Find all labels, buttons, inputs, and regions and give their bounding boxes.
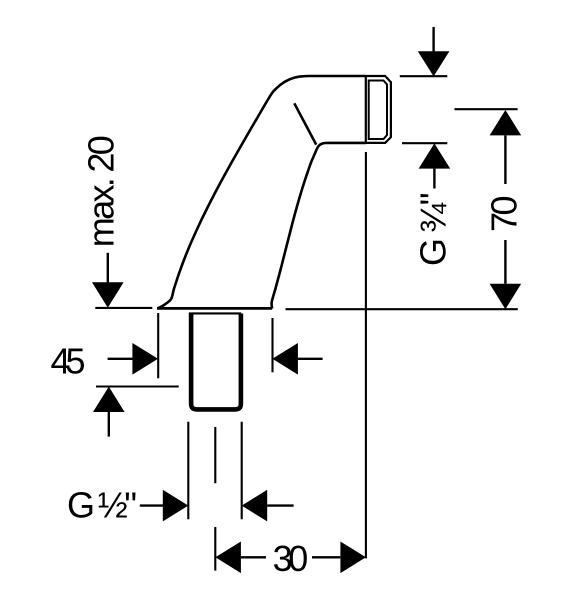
arrow right to base left edge bbox=[108, 358, 133, 360]
dim ref line fitting axis bbox=[455, 108, 518, 110]
arrow right to stub left bbox=[140, 504, 163, 506]
arrow down to fitting top bbox=[432, 27, 434, 51]
svg-text:45: 45 bbox=[51, 340, 86, 381]
arrow left to stub right bbox=[242, 490, 268, 522]
extension line stub left bbox=[187, 422, 189, 520]
stub G1/2 thick outline bbox=[191, 314, 241, 410]
svg-text:max. 20: max. 20 bbox=[80, 135, 121, 247]
centerline stub bbox=[214, 427, 216, 571]
extension line base left bbox=[157, 313, 159, 378]
dim ref line top of fitting bbox=[400, 75, 448, 77]
svg-text:30: 30 bbox=[273, 538, 309, 579]
svg-text:G ¾": G ¾" bbox=[413, 193, 454, 267]
svg-text:70: 70 bbox=[484, 196, 525, 233]
baseline right segment bbox=[286, 308, 518, 310]
extension line from fitting bottom corner bbox=[365, 152, 367, 558]
stub top line bbox=[189, 312, 241, 314]
dimension 70 vertical bbox=[490, 110, 522, 135]
baseline left segment bbox=[95, 307, 152, 309]
fitting G3/4 outer profile bbox=[366, 75, 391, 144]
extension line stub right bbox=[241, 422, 243, 520]
body outline (elbow silhouette) bbox=[157, 76, 366, 309]
fitting G3/4 inner profile bbox=[369, 81, 387, 140]
arrow down to baseline (max 20) bbox=[107, 253, 109, 283]
dim ref line bottom of fitting bbox=[402, 142, 447, 144]
arrow up to lower ref line bbox=[93, 387, 125, 412]
arrow up to fitting bottom bbox=[419, 143, 451, 168]
svg-text:G ½": G ½" bbox=[67, 485, 137, 526]
extension line base right bbox=[271, 318, 273, 372]
max 20 lower ref line bbox=[96, 385, 179, 387]
dimension 30 bbox=[215, 542, 241, 574]
arrow left to base right edge bbox=[272, 343, 298, 375]
body crease line bbox=[294, 103, 316, 144]
